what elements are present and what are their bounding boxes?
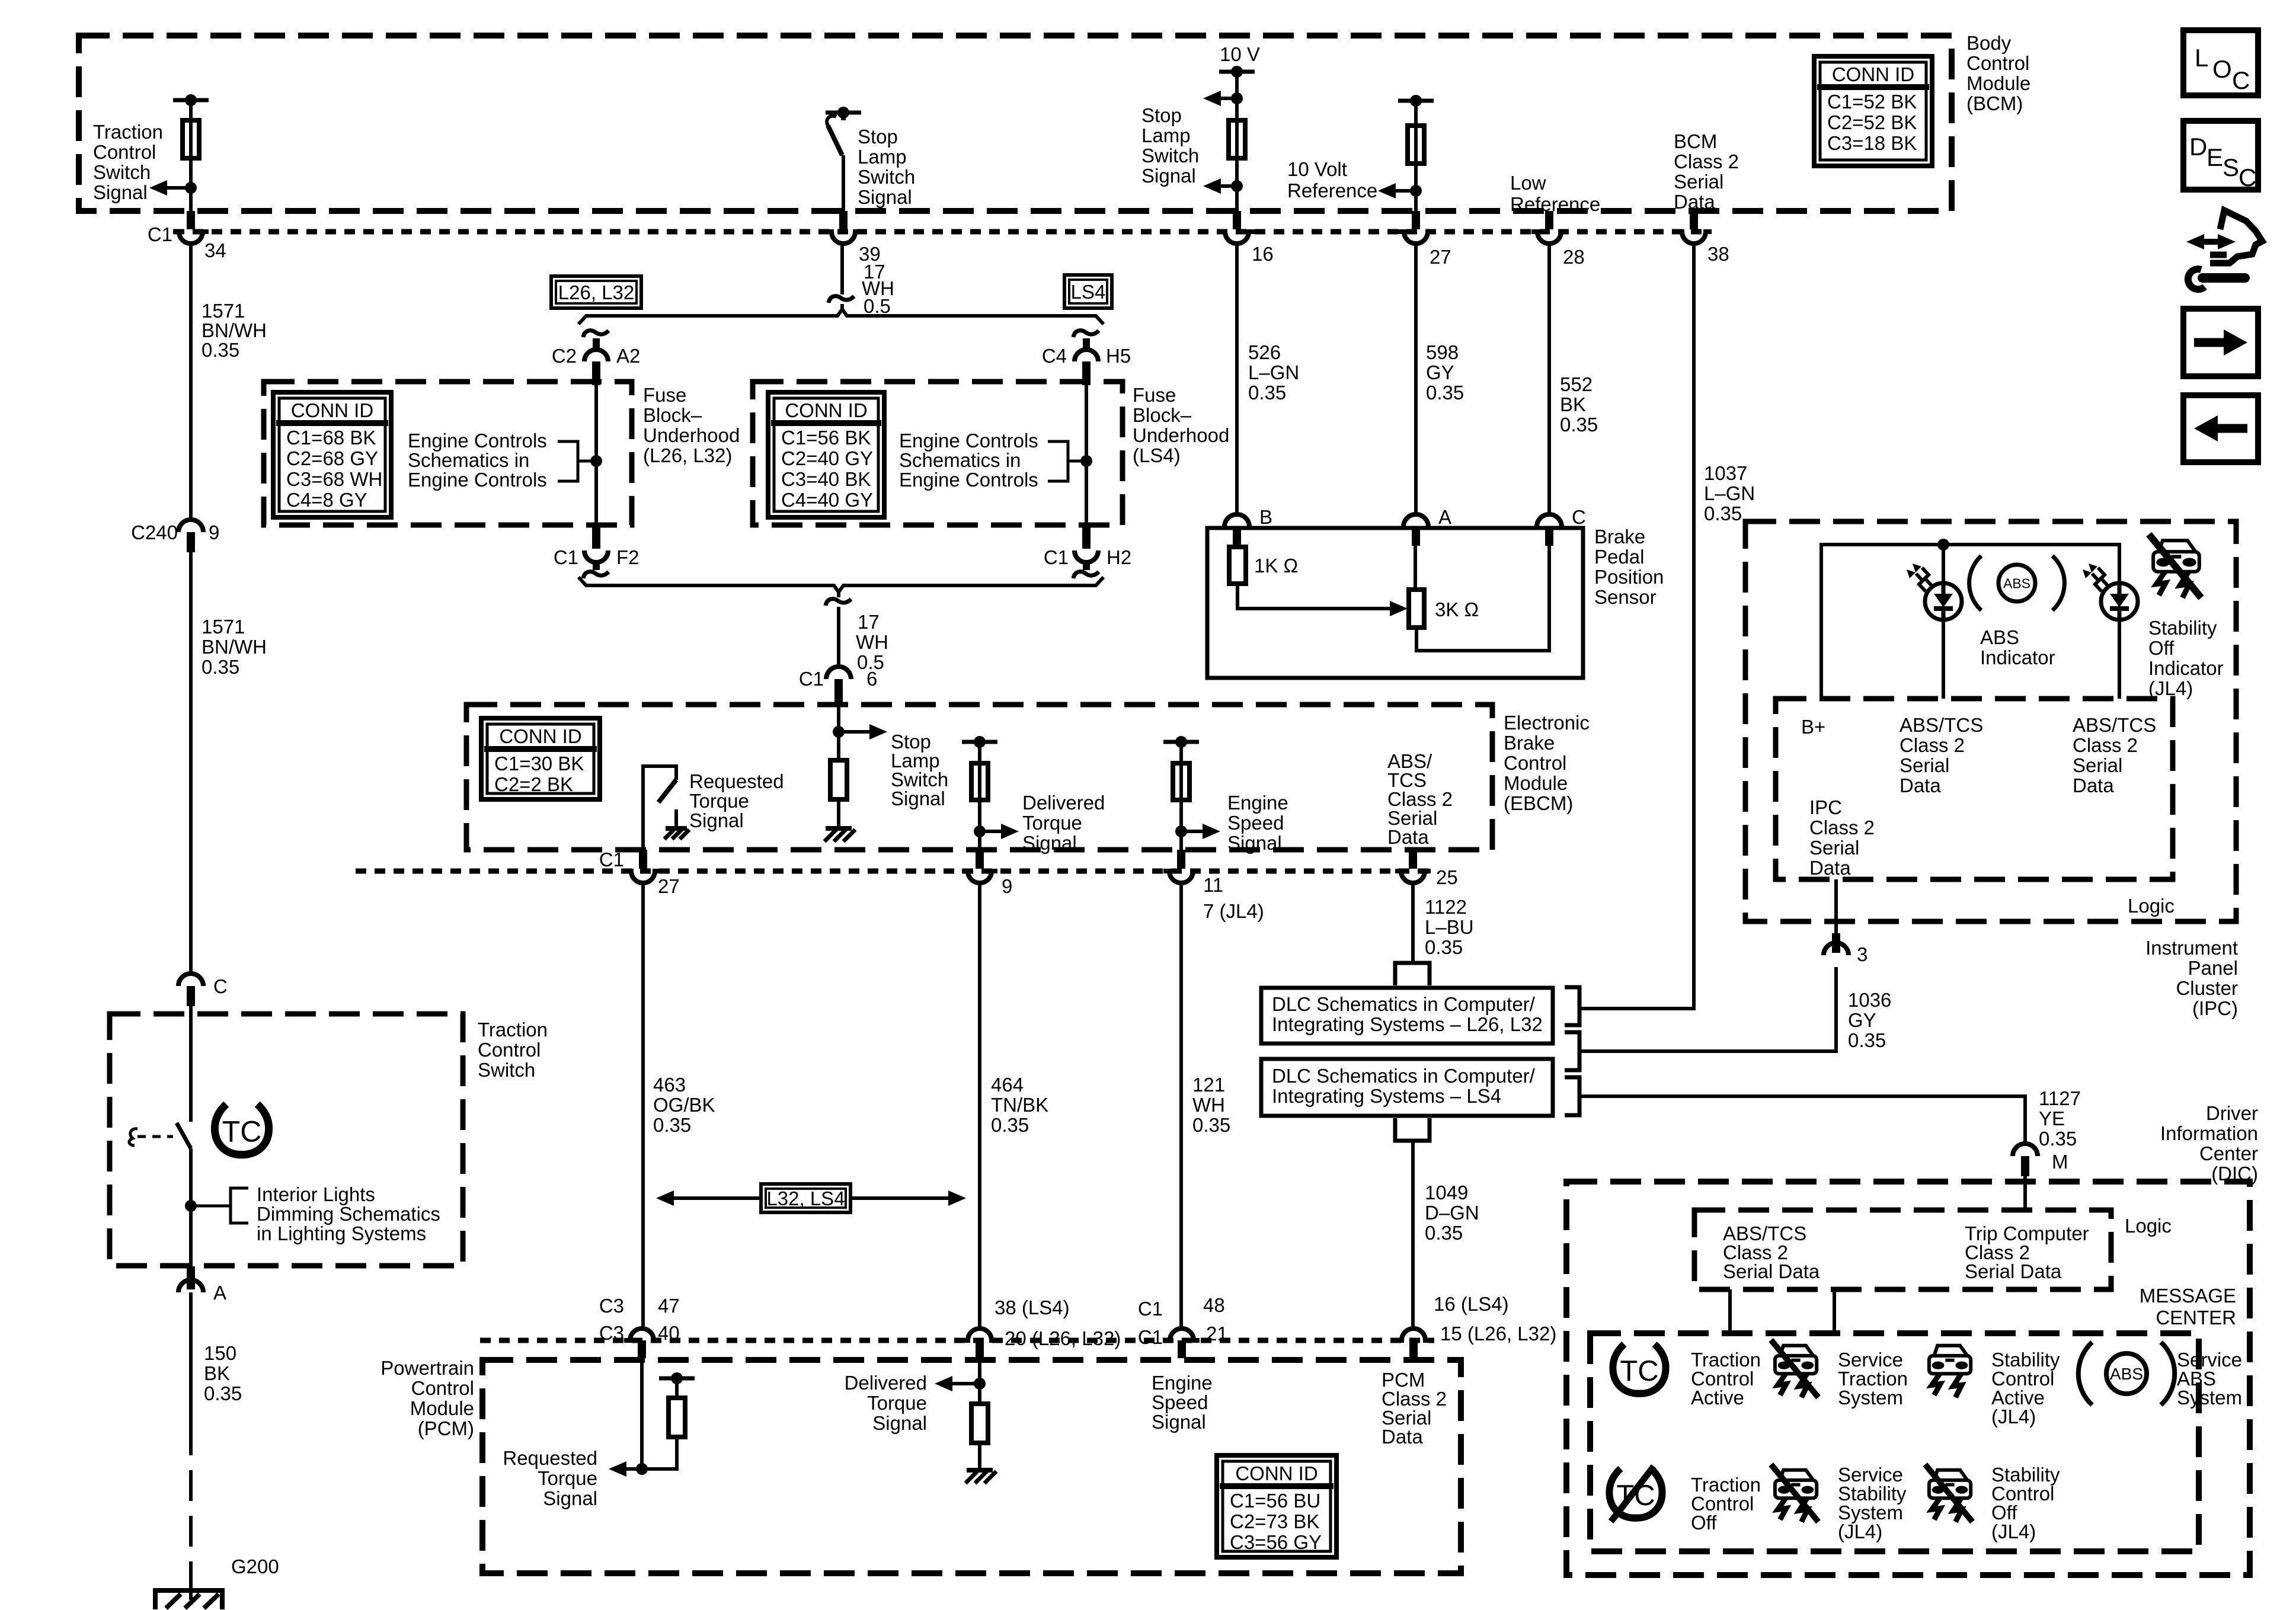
connector pin 39 (826, 232, 861, 244)
tag L32, LS4 with arrows (761, 1184, 850, 1212)
svg-text:Torque: Torque (689, 790, 749, 812)
svg-text:28: 28 (1563, 246, 1585, 268)
svg-text:Switch: Switch (478, 1059, 535, 1081)
svg-text:Serial: Serial (2073, 754, 2122, 776)
connector PCM at x=2385 (1396, 1329, 1431, 1340)
resistor in BCM reference col (1408, 126, 1424, 164)
svg-text:C1: C1 (599, 849, 624, 870)
svg-text:1122: 1122 (1425, 896, 1467, 918)
arrow engine speed EBCM (1181, 830, 1204, 833)
svg-text:Traction: Traction (478, 1019, 548, 1041)
svg-text:Underhood: Underhood (643, 424, 740, 446)
car icon service traction system (1780, 1346, 1813, 1356)
svg-text:Engine: Engine (1152, 1372, 1213, 1394)
svg-text:0.35: 0.35 (202, 656, 239, 678)
svg-text:BCM: BCM (1674, 130, 1717, 152)
svg-text:Fuse: Fuse (643, 384, 686, 406)
svg-text:Active: Active (1691, 1387, 1744, 1409)
ABS icon service ABS system (2106, 1353, 2147, 1394)
wire engine speed EBCM (1179, 742, 1183, 850)
connector C1 pin 34 stub (187, 211, 195, 229)
arrow stop lamp switch signal lower (1220, 184, 1237, 188)
svg-text:BK: BK (1560, 393, 1586, 415)
wire splice to brace (840, 304, 844, 311)
car icon stability off indicator (2159, 540, 2196, 552)
connector PCM at x=1653 (962, 1329, 997, 1340)
power bar requested torque PCM (659, 1377, 695, 1381)
svg-text:C1=68 BK: C1=68 BK (286, 427, 376, 449)
svg-text:L32, LS4: L32, LS4 (766, 1188, 845, 1209)
connector EBCM pin 11 stub (1177, 850, 1185, 869)
stub logic to message center 1 (1728, 1289, 1732, 1333)
logic box IPC (1776, 699, 2173, 879)
power bar 10V (1219, 70, 1255, 74)
svg-text:Switch: Switch (1141, 145, 1199, 167)
staple below DLC box 2 (1395, 1118, 1430, 1141)
svg-text:Module: Module (1966, 72, 2030, 94)
svg-text:3K Ω: 3K Ω (1435, 598, 1479, 620)
wire 150 BK solid (189, 1292, 193, 1425)
svg-text:C4: C4 (1042, 345, 1067, 367)
ground G200 (155, 1590, 222, 1609)
wire 1049 D-GN (1411, 1141, 1415, 1327)
svg-text:Data: Data (1809, 857, 1851, 879)
svg-text:DLC Schematics in Computer/: DLC Schematics in Computer/ (1272, 1065, 1536, 1087)
junction 10 volt reference (1410, 185, 1422, 197)
svg-text:(JL4): (JL4) (1838, 1521, 1882, 1542)
junction stop lamp signal upper (1231, 92, 1243, 104)
svg-text:Lamp: Lamp (1141, 124, 1191, 146)
svg-text:Signal: Signal (891, 788, 945, 809)
svg-text:47: 47 (658, 1295, 680, 1317)
svg-text:Serial: Serial (1809, 837, 1859, 859)
junction stop lamp signal lower (1231, 180, 1243, 192)
svg-text:Control: Control (478, 1039, 541, 1061)
connector pin 16 stub (1233, 211, 1241, 229)
svg-text:ABS: ABS (1980, 626, 2019, 648)
svg-text:(L26, L32): (L26, L32) (643, 444, 732, 466)
CONN ID table PCM (1217, 1455, 1336, 1557)
svg-text:Traction: Traction (93, 121, 163, 143)
svg-text:C: C (213, 975, 228, 997)
svg-text:Control: Control (93, 141, 156, 163)
svg-text:Class 2: Class 2 (1674, 151, 1739, 172)
svg-text:10 Volt: 10 Volt (1287, 158, 1347, 180)
connector row C1 of BCM (dotted) (174, 229, 1707, 235)
svg-text:Engine Controls: Engine Controls (899, 430, 1038, 452)
connector pin 38 (1676, 232, 1712, 244)
svg-text:Torque: Torque (538, 1467, 597, 1489)
resistor delivered torque PCM (971, 1404, 988, 1443)
svg-text:C1: C1 (148, 223, 172, 245)
svg-text:C240: C240 (131, 521, 178, 543)
ground in EBCM requested torque (666, 826, 687, 831)
svg-text:20 (L26, L32): 20 (L26, L32) (1005, 1327, 1121, 1349)
wrench and arrows icon (2203, 240, 2218, 244)
svg-text:L–GN: L–GN (1248, 361, 1299, 383)
arrow left to requested torque wire (673, 1196, 761, 1200)
svg-text:1036: 1036 (1848, 989, 1891, 1011)
wire resistor to ground PCM (978, 1443, 981, 1470)
junction delivered torque EBCM (974, 825, 986, 837)
svg-text:27: 27 (1430, 246, 1451, 268)
svg-text:H2: H2 (1107, 546, 1131, 568)
svg-text:Position: Position (1594, 566, 1664, 588)
svg-text:Module: Module (410, 1397, 474, 1419)
svg-text:9: 9 (1002, 875, 1012, 897)
junction engine speed EBCM (1175, 825, 1187, 837)
svg-text:C: C (2232, 66, 2250, 94)
svg-text:0.35: 0.35 (653, 1114, 691, 1136)
svg-text:C4=8 GY: C4=8 GY (286, 489, 367, 511)
svg-text:3: 3 (1857, 943, 1868, 965)
connector A of traction switch (178, 1280, 203, 1292)
svg-text:in Lighting Systems: in Lighting Systems (257, 1222, 426, 1244)
bus bracket DLC 3 (1565, 1077, 1579, 1115)
resistor inside BCM col1 (183, 120, 199, 158)
svg-text:Electronic: Electronic (1504, 712, 1590, 734)
wire 526 L-GN (1235, 244, 1239, 514)
svg-text:WH: WH (856, 631, 888, 653)
message center box (1590, 1333, 2199, 1551)
wiper arrow into 3K (1390, 601, 1408, 616)
CONN ID table fuse block LS4 (768, 392, 884, 517)
svg-text:Information: Information (2160, 1122, 2258, 1144)
bus bracket DLC 1 (1565, 987, 1579, 1025)
resistor requested torque PCM (669, 1398, 685, 1437)
wire through fuse block 2 (1085, 384, 1088, 525)
svg-text:L26, L32: L26, L32 (558, 281, 634, 303)
svg-text:17: 17 (858, 611, 880, 633)
svg-text:Signal: Signal (689, 809, 744, 831)
svg-text:Serial Data: Serial Data (1723, 1260, 1820, 1282)
wire 552 BK (1547, 244, 1551, 514)
svg-text:GY: GY (1426, 361, 1454, 383)
bus bracket DLC 2 (1565, 1032, 1579, 1070)
svg-text:H5: H5 (1106, 345, 1131, 367)
icon box right arrow (2183, 309, 2258, 376)
junction stop lamp EBCM (833, 726, 845, 738)
wire below switch (189, 1148, 193, 1271)
svg-text:BN/WH: BN/WH (202, 319, 267, 341)
svg-text:Data: Data (1674, 191, 1715, 213)
requested torque ground stub (674, 809, 678, 828)
svg-text:C1: C1 (799, 668, 824, 690)
svg-text:Instrument: Instrument (2145, 937, 2238, 959)
svg-text:Data: Data (1387, 826, 1429, 848)
svg-text:C1=52 BK: C1=52 BK (1827, 91, 1917, 113)
junction for interior lights tap (185, 1200, 197, 1212)
resistor 1K (1229, 547, 1246, 584)
tag LS4 (1064, 275, 1112, 308)
svg-text:WH: WH (1192, 1094, 1225, 1116)
svg-text:ABS/TCS: ABS/TCS (1900, 714, 1983, 736)
connector pin 16 (1219, 232, 1255, 244)
svg-text:S: S (2223, 153, 2239, 181)
svg-text:ABS: ABS (2110, 1365, 2143, 1383)
svg-text:G200: G200 (231, 1555, 279, 1577)
svg-text:Data: Data (1900, 774, 1941, 796)
connector C1 pin 34 (173, 232, 209, 244)
B+ bus wire in IPC (1821, 545, 2119, 699)
svg-text:Class 2: Class 2 (2073, 734, 2138, 756)
svg-text:Logic: Logic (2128, 895, 2175, 917)
svg-text:10 V: 10 V (1220, 43, 1260, 65)
svg-text:Stop: Stop (1141, 104, 1182, 126)
junction requested torque PCM (636, 1463, 648, 1475)
wire 1571 BN/WH lower (189, 552, 193, 974)
junction delivered torque PCM (974, 1378, 986, 1390)
wire 464 TN/BK (978, 883, 981, 1327)
wire into switch (189, 1006, 193, 1122)
svg-text:0.35: 0.35 (1248, 382, 1286, 404)
svg-text:L–GN: L–GN (1704, 482, 1755, 504)
svg-text:Logic: Logic (2125, 1215, 2172, 1237)
splice on merged wire (826, 599, 851, 606)
svg-text:GY: GY (1848, 1009, 1876, 1031)
svg-text:0.35: 0.35 (1426, 382, 1464, 404)
wire DLC3 to DIC M (1579, 1096, 2025, 1144)
svg-text:C1: C1 (554, 546, 578, 568)
svg-text:CONN ID: CONN ID (1832, 63, 1914, 85)
svg-text:ABS/TCS: ABS/TCS (2073, 714, 2156, 736)
CONN ID table for BCM (1814, 56, 1932, 166)
power bar delivered torque (962, 740, 997, 744)
svg-text:CONN ID: CONN ID (291, 399, 373, 421)
splice on stop lamp wire (829, 296, 854, 303)
svg-text:B: B (1259, 506, 1272, 528)
svg-text:Interior Lights: Interior Lights (257, 1183, 375, 1205)
junction B+ bus (1937, 539, 1949, 550)
wire splice to C1-6 (837, 607, 840, 667)
ground PCM delivered torque (967, 1468, 993, 1473)
wire resistor to ground EBCM (837, 799, 840, 828)
LED ABS indicator (1925, 583, 1962, 620)
svg-text:Body: Body (1966, 32, 2012, 54)
connector A of brake pedal sensor (1403, 514, 1428, 527)
svg-text:6: 6 (866, 668, 877, 690)
wire DLC2 to IPC (1579, 967, 1836, 1051)
connector EBCM pin 25 (1395, 871, 1431, 883)
svg-text:Engine Controls: Engine Controls (899, 469, 1038, 491)
TC icon in traction control switch (215, 1104, 268, 1154)
connector C1 pin 6 (826, 667, 851, 679)
CONN ID table fuse block L26/L32 (273, 392, 391, 517)
svg-text:BK: BK (204, 1362, 230, 1384)
connector A stub (187, 1266, 195, 1289)
svg-text:1049: 1049 (1425, 1182, 1468, 1204)
svg-text:34: 34 (204, 239, 226, 261)
brace split to fuse blocks (578, 309, 1104, 324)
svg-text:B+: B+ (1801, 716, 1825, 738)
connector pin 38 stub (1690, 211, 1698, 229)
svg-text:0.35: 0.35 (204, 1382, 242, 1404)
svg-text:25: 25 (1436, 866, 1458, 888)
svg-text:Speed: Speed (1227, 812, 1284, 834)
wire into G200 (189, 1577, 193, 1600)
svg-text:C: C (1572, 506, 1586, 528)
engine controls bracket 1 (558, 441, 578, 481)
car icon service stability system (1780, 1470, 1813, 1480)
svg-text:Schematics in: Schematics in (899, 449, 1021, 471)
wire stop lamp inside EBCM (837, 705, 840, 760)
svg-text:Control: Control (411, 1377, 474, 1399)
wire delivered torque EBCM (978, 742, 981, 850)
svg-text:Signal: Signal (1227, 832, 1282, 854)
right arrow glyph (2194, 338, 2225, 347)
icon box left arrow (2183, 395, 2258, 462)
svg-text:C1: C1 (1138, 1326, 1163, 1348)
svg-text:F2: F2 (616, 546, 639, 568)
wire M into logic box (2023, 1176, 2027, 1210)
svg-text:Underhood: Underhood (1133, 424, 1229, 446)
svg-text:Powertrain: Powertrain (380, 1357, 474, 1379)
connector C of brake pedal sensor (1537, 514, 1562, 527)
svg-text:0.35: 0.35 (991, 1114, 1029, 1136)
svg-text:0.35: 0.35 (1425, 936, 1463, 958)
svg-text:Reference: Reference (1510, 193, 1600, 215)
svg-text:1571: 1571 (202, 616, 245, 638)
connector EBCM pin 25 stub (1409, 850, 1417, 869)
connector row PCM (dotted) (480, 1338, 1434, 1343)
arrow stop lamp switch signal upper (1220, 97, 1237, 100)
ABS symbol in IPC (1998, 565, 2035, 601)
svg-text:Reference: Reference (1287, 180, 1377, 201)
svg-text:552: 552 (1560, 373, 1593, 395)
svg-text:A: A (1438, 506, 1451, 528)
junction fuse block 1 (590, 455, 602, 467)
svg-text:40: 40 (658, 1322, 680, 1344)
car icon stability control active (1934, 1346, 1967, 1356)
wire reference col inside BCM (1414, 101, 1418, 211)
wire DLC1 to BCM serial (1579, 1007, 1694, 1010)
svg-text:C2=40 GY: C2=40 GY (781, 447, 873, 469)
svg-text:C1=56 BU: C1=56 BU (1230, 1490, 1320, 1512)
interior lights tap link (191, 1205, 231, 1208)
svg-text:C1: C1 (1044, 546, 1069, 568)
svg-text:Class 2: Class 2 (1900, 734, 1965, 756)
svg-text:0.35: 0.35 (1192, 1114, 1230, 1136)
wire col1 inside BCM (189, 100, 193, 211)
svg-text:CONN ID: CONN ID (1235, 1462, 1318, 1484)
svg-text:1571: 1571 (202, 300, 245, 322)
engine controls bracket link 1 (578, 460, 596, 463)
wire 598 GY (1414, 244, 1418, 514)
svg-text:Control: Control (1504, 752, 1566, 774)
svg-text:Schematics in: Schematics in (408, 449, 529, 471)
wire B inside sensor (1236, 528, 1239, 547)
svg-text:Stop: Stop (858, 126, 898, 148)
svg-text:Signal: Signal (1152, 1411, 1206, 1433)
brace merge from fuse blocks (578, 577, 1104, 592)
svg-text:L: L (2195, 44, 2208, 72)
svg-text:Block–: Block– (1133, 404, 1192, 426)
svg-text:Indicator: Indicator (1980, 646, 2055, 668)
arrow traction control switch signal (166, 186, 191, 190)
LED stability off indicator (2101, 583, 2138, 620)
svg-text:(JL4): (JL4) (1991, 1406, 2036, 1427)
connector PCM at x=1083 (624, 1329, 660, 1340)
connector pin 28 (1531, 232, 1567, 244)
svg-text:48: 48 (1203, 1294, 1225, 1316)
stop lamp switch blade (841, 113, 846, 120)
svg-text:E: E (2207, 143, 2223, 171)
svg-text:0.35: 0.35 (1848, 1029, 1886, 1051)
connector pin 27 stub (1412, 211, 1420, 229)
wire LED2 to logic box (2118, 620, 2121, 699)
connector row EBCM outputs (dotted) (356, 869, 1434, 874)
svg-text:System: System (2177, 1387, 2242, 1409)
svg-text:27: 27 (658, 875, 680, 897)
svg-text:7 (JL4): 7 (JL4) (1203, 900, 1264, 922)
requested torque switch in EBCM (643, 766, 676, 849)
connector C240 pin 9 (178, 520, 203, 532)
pull-up branch requested torque (642, 1437, 677, 1469)
module box: Powertrain Control Module (PCM) (482, 1360, 1461, 1573)
svg-text:Block–: Block– (643, 404, 702, 426)
svg-text:C1=30 BK: C1=30 BK (494, 753, 584, 774)
svg-text:Signal: Signal (872, 1412, 927, 1434)
svg-text:D–GN: D–GN (1425, 1202, 1479, 1224)
resistor delivered torque EBCM (971, 763, 988, 800)
svg-text:Serial: Serial (1674, 171, 1723, 193)
svg-text:M: M (2052, 1151, 2068, 1173)
svg-text:Signal: Signal (858, 186, 912, 208)
staple above DLC box 1 (1395, 963, 1430, 985)
svg-text:Sensor: Sensor (1594, 586, 1657, 608)
svg-text:C3: C3 (599, 1295, 624, 1317)
svg-text:9: 9 (209, 521, 219, 543)
svg-text:16: 16 (1252, 243, 1274, 265)
svg-text:Serial: Serial (1900, 754, 1949, 776)
svg-text:Signal: Signal (1141, 165, 1196, 187)
junction col1 (185, 182, 197, 194)
svg-text:IPC: IPC (1809, 796, 1842, 818)
svg-text:1127: 1127 (2039, 1087, 2081, 1109)
wire bus to LED1 (1942, 545, 1945, 583)
power bar engine speed (1163, 740, 1199, 744)
svg-text:(BCM): (BCM) (1966, 92, 2023, 114)
connector PCM at x=1994 (1164, 1329, 1200, 1340)
resistor in BCM 10V col (1229, 120, 1245, 158)
arrow delivered torque PCM (951, 1382, 980, 1385)
svg-text:0.35: 0.35 (1704, 502, 1742, 524)
svg-text:C2: C2 (552, 345, 577, 367)
svg-text:TC: TC (222, 1115, 262, 1148)
icon box DESC (2183, 121, 2258, 190)
CONN ID table for EBCM (481, 718, 600, 799)
connector EBCM pin 27 (625, 871, 661, 883)
svg-text:System: System (1838, 1387, 1903, 1409)
wire 1K to wiper arrow (1237, 584, 1391, 609)
svg-text:Center: Center (2199, 1142, 2258, 1164)
svg-text:(LS4): (LS4) (1133, 444, 1181, 466)
svg-text:A: A (213, 1282, 226, 1304)
svg-text:38: 38 (1707, 243, 1729, 265)
wire requested torque PCM (640, 1358, 644, 1469)
svg-text:C3=56 GY: C3=56 GY (1230, 1531, 1322, 1553)
svg-text:(IPC): (IPC) (2192, 997, 2238, 1019)
wire LED1 to logic box (1942, 620, 1945, 699)
svg-text:C3=18 BK: C3=18 BK (1827, 132, 1917, 154)
svg-text:BN/WH: BN/WH (202, 636, 267, 658)
svg-text:D: D (2189, 133, 2207, 161)
svg-text:(EBCM): (EBCM) (1504, 792, 1573, 814)
svg-text:Indicator: Indicator (2148, 657, 2224, 679)
svg-text:Integrating Systems – LS4: Integrating Systems – LS4 (1272, 1085, 1501, 1107)
svg-text:0.35: 0.35 (202, 339, 239, 361)
svg-text:463: 463 (653, 1074, 686, 1096)
